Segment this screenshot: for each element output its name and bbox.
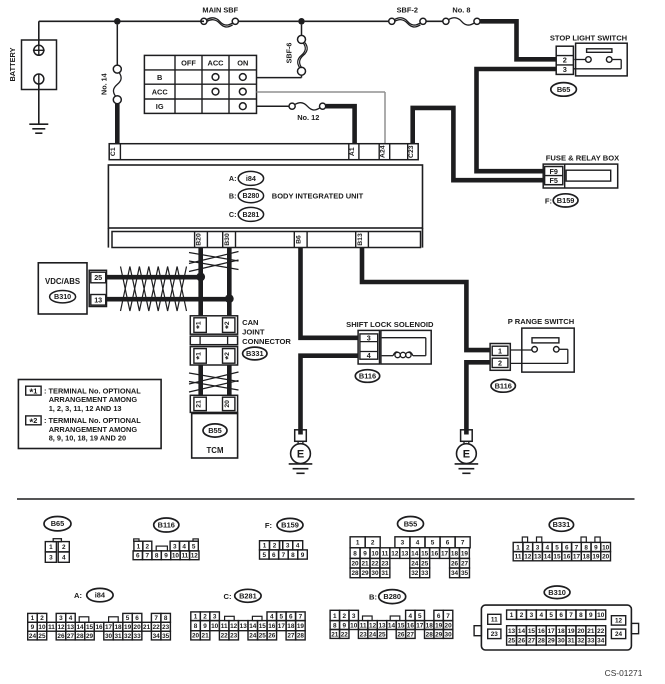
svg-text:25: 25 [508, 638, 516, 645]
TCM terminal row [190, 395, 237, 412]
svg-text:12: 12 [369, 622, 377, 629]
svg-text:11: 11 [491, 617, 498, 624]
svg-text:5: 5 [555, 544, 559, 551]
svg-text:15: 15 [421, 550, 429, 557]
svg-text:20: 20 [602, 554, 610, 561]
svg-text:14: 14 [544, 554, 552, 561]
svg-text:25: 25 [421, 561, 429, 568]
svg-text:1: 1 [49, 544, 53, 551]
svg-text:1: 1 [356, 540, 360, 547]
svg-text:24: 24 [369, 631, 377, 638]
svg-text:16: 16 [268, 623, 276, 630]
svg-text:28: 28 [426, 631, 434, 638]
wire B13 to P range switch terminal 1 (thick) [362, 248, 490, 351]
svg-text:7: 7 [282, 552, 286, 559]
svg-text:13: 13 [534, 554, 542, 561]
svg-text:20: 20 [192, 633, 200, 640]
svg-text:16: 16 [431, 550, 439, 557]
TCM unit box [192, 414, 238, 459]
svg-text:32: 32 [411, 570, 419, 577]
svg-text:: TERMINAL No. OPTIONAL: : TERMINAL No. OPTIONAL [44, 386, 141, 395]
node CAN-H junction [196, 273, 205, 282]
fuse No. 8 [443, 18, 449, 24]
svg-text:27: 27 [67, 633, 75, 640]
wire No. 8 to stop light switch terminal 2 (thick) [480, 21, 556, 59]
svg-text:19: 19 [435, 622, 443, 629]
svg-text:ACC: ACC [207, 58, 224, 67]
svg-text:TCM: TCM [207, 446, 224, 455]
twisted pair marks (horizontal) [121, 267, 187, 312]
wire battery positive to top bus [38, 45, 40, 55]
svg-text:3: 3 [49, 554, 53, 561]
connector B331 pinout [522, 537, 527, 542]
fuse MAIN SBF [201, 18, 207, 24]
svg-text:24: 24 [411, 561, 419, 568]
svg-text:B13: B13 [357, 233, 364, 246]
svg-text:: TERMINAL No. OPTIONAL: : TERMINAL No. OPTIONAL [44, 416, 141, 425]
svg-text:4: 4 [545, 544, 549, 551]
node junction B (SBF-6 tap) [298, 18, 305, 25]
svg-text:BODY INTEGRATED UNIT: BODY INTEGRATED UNIT [272, 191, 364, 200]
svg-text:A:: A: [229, 174, 237, 183]
svg-text:4: 4 [367, 351, 371, 360]
svg-text:31: 31 [567, 638, 575, 645]
connector C1 [119, 144, 121, 160]
svg-text:B116: B116 [495, 381, 512, 390]
svg-text:16: 16 [95, 624, 103, 631]
svg-text:34: 34 [451, 570, 459, 577]
svg-text:9: 9 [301, 552, 305, 559]
svg-text:12: 12 [615, 618, 623, 625]
svg-text:No. 12: No. 12 [297, 113, 319, 122]
wire P range switch terminal 2 to ground (thick) [466, 362, 490, 434]
svg-text:7: 7 [461, 540, 465, 547]
CAN joint connector middle row [190, 336, 237, 345]
wire IG row to fuse No. 12 [257, 105, 290, 107]
svg-text:6: 6 [136, 553, 140, 560]
connector C23 [407, 144, 409, 160]
svg-text:1: 1 [498, 346, 502, 355]
connector B116 pinout ref [154, 518, 179, 532]
svg-text:6: 6 [289, 614, 293, 621]
svg-text:22: 22 [153, 624, 161, 631]
svg-text:27: 27 [461, 561, 469, 568]
connector B6 [293, 232, 295, 248]
svg-text:27: 27 [407, 631, 415, 638]
svg-text:11: 11 [181, 553, 188, 560]
svg-text:B331: B331 [553, 520, 571, 529]
svg-text:2: 2 [146, 543, 150, 550]
svg-text:34: 34 [153, 633, 161, 640]
svg-text:20: 20 [352, 561, 360, 568]
svg-text:18: 18 [287, 623, 295, 630]
svg-text:5: 5 [280, 614, 284, 621]
svg-text:23: 23 [230, 633, 238, 640]
svg-text:20: 20 [445, 622, 453, 629]
svg-text:19: 19 [567, 628, 575, 635]
wire CAN joint *2 to TCM 20 (thick) [227, 365, 232, 395]
svg-text:A1: A1 [349, 147, 356, 156]
svg-text:CONNECTOR: CONNECTOR [242, 337, 291, 346]
connector B310 pinout ref [544, 586, 570, 599]
svg-text:10: 10 [371, 550, 379, 557]
svg-text:7: 7 [569, 612, 573, 619]
wire node to CAN joint connector *2 (thick) [227, 299, 232, 316]
svg-text:11: 11 [221, 623, 228, 630]
svg-text:5: 5 [126, 615, 130, 622]
svg-text:7: 7 [154, 615, 158, 622]
svg-text:26: 26 [397, 631, 405, 638]
svg-text:31: 31 [115, 633, 123, 640]
connector B65 pinout [53, 539, 61, 542]
VDC/ABS unit [38, 263, 87, 314]
solenoid coil L1 [393, 352, 398, 356]
svg-text:SHIFT LOCK SOLENOID: SHIFT LOCK SOLENOID [346, 320, 434, 329]
twisted pair marks (vertical upper) [189, 253, 239, 262]
svg-text:B65: B65 [51, 519, 65, 528]
svg-text:1: 1 [333, 613, 337, 620]
svg-text:26: 26 [268, 633, 276, 640]
svg-text:35: 35 [461, 570, 469, 577]
svg-text:5: 5 [192, 543, 196, 550]
svg-text:27: 27 [287, 633, 295, 640]
svg-text:21: 21 [195, 400, 202, 408]
body integrated unit main box [108, 165, 422, 228]
svg-text:STOP LIGHT SWITCH: STOP LIGHT SWITCH [550, 34, 627, 43]
svg-text:33: 33 [587, 638, 595, 645]
svg-text:30: 30 [105, 633, 113, 640]
svg-text:ARRANGEMENT AMONG: ARRANGEMENT AMONG [49, 425, 138, 434]
svg-text:17: 17 [441, 550, 449, 557]
svg-text:19: 19 [461, 550, 469, 557]
svg-text:4: 4 [182, 543, 186, 550]
svg-text:25: 25 [38, 633, 46, 640]
svg-text:24: 24 [29, 633, 37, 640]
svg-text:B30: B30 [224, 233, 231, 246]
svg-text:7: 7 [145, 553, 149, 560]
connector B281 pinout [191, 612, 201, 621]
svg-text:18: 18 [115, 624, 123, 631]
note box (terminal arrangement) [18, 380, 161, 449]
connector A1 [348, 144, 350, 160]
svg-text:B159: B159 [557, 196, 575, 205]
svg-text:10: 10 [602, 544, 610, 551]
svg-text:E: E [297, 449, 304, 461]
svg-text:No. 8: No. 8 [452, 6, 470, 15]
svg-text:CAN: CAN [242, 318, 258, 327]
svg-text:A:: A: [74, 591, 82, 600]
svg-text:10: 10 [597, 612, 605, 619]
svg-text:3: 3 [59, 615, 63, 622]
svg-text:23: 23 [381, 561, 389, 568]
svg-text:SBF-2: SBF-2 [397, 6, 418, 15]
svg-text:i84: i84 [246, 174, 256, 183]
svg-text:F:: F: [265, 521, 272, 530]
svg-text:1, 2, 3, 11, 12 AND 13: 1, 2, 3, 11, 12 AND 13 [49, 404, 122, 413]
connector B20 [194, 232, 196, 248]
ground E (P range switch) [461, 430, 473, 442]
svg-text:C:: C: [223, 592, 231, 601]
wire No. 12 to connector A1 (thick) [326, 106, 355, 144]
svg-text:C1: C1 [110, 147, 117, 156]
svg-text:SBF-6: SBF-6 [285, 43, 294, 64]
svg-text:4: 4 [270, 614, 274, 621]
fuse SBF-6 [301, 25, 303, 36]
svg-text:3: 3 [563, 65, 567, 74]
svg-text:14: 14 [249, 623, 257, 630]
svg-text:3: 3 [536, 544, 540, 551]
svg-text:B280: B280 [243, 193, 260, 200]
svg-text:IG: IG [156, 102, 164, 111]
fuse and relay box inner element [566, 170, 611, 181]
svg-text:25: 25 [94, 273, 102, 282]
connector B310 pinout cells [507, 610, 517, 619]
svg-text:B:: B: [229, 191, 237, 200]
svg-text:6: 6 [559, 612, 563, 619]
wire ACC row to A24 (gray) [257, 91, 386, 93]
wire battery negative to ground [38, 84, 40, 124]
svg-text:29: 29 [548, 638, 556, 645]
svg-text:B280: B280 [383, 592, 401, 601]
svg-text:MAIN SBF: MAIN SBF [202, 6, 238, 15]
svg-text:8: 8 [579, 612, 583, 619]
svg-text:12: 12 [524, 554, 532, 561]
svg-text:27: 27 [528, 638, 536, 645]
terminal 20 [223, 397, 235, 410]
svg-text:B281: B281 [239, 591, 257, 600]
svg-text:22: 22 [597, 628, 605, 635]
svg-text:14: 14 [388, 622, 396, 629]
svg-text:F:: F: [545, 196, 552, 205]
svg-text:1: 1 [516, 544, 520, 551]
svg-text:A24: A24 [379, 145, 386, 158]
svg-text:17: 17 [573, 554, 581, 561]
svg-text:18: 18 [426, 622, 434, 629]
svg-text:35: 35 [162, 633, 170, 640]
svg-text:8: 8 [333, 622, 337, 629]
svg-text:13: 13 [67, 624, 75, 631]
svg-text:24: 24 [615, 631, 623, 638]
wire solenoid terminal 4 to ground (thick) [301, 356, 359, 435]
svg-text:21: 21 [361, 561, 369, 568]
svg-text:2: 2 [40, 615, 44, 622]
svg-text:30: 30 [558, 638, 566, 645]
svg-text:14: 14 [411, 550, 419, 557]
svg-text:32: 32 [124, 633, 132, 640]
svg-text:F9: F9 [550, 167, 558, 176]
svg-text:3: 3 [352, 613, 356, 620]
svg-text:ARRANGEMENT AMONG: ARRANGEMENT AMONG [49, 395, 138, 404]
VDC/ABS terminal block [89, 270, 106, 306]
svg-text:23: 23 [162, 624, 170, 631]
svg-text:15: 15 [553, 554, 561, 561]
svg-text:21: 21 [202, 633, 210, 640]
svg-text:B159: B159 [281, 521, 299, 530]
svg-text:P RANGE SWITCH: P RANGE SWITCH [508, 317, 575, 326]
svg-text:VDC/ABS: VDC/ABS [45, 277, 80, 286]
svg-text:4: 4 [69, 615, 73, 622]
wire junction B to SBF-2 [305, 20, 389, 22]
connector B116 ref (P range switch) [491, 379, 515, 392]
connector A24 [378, 144, 380, 160]
svg-text:20: 20 [224, 400, 231, 408]
svg-text:30: 30 [445, 631, 453, 638]
svg-text:3: 3 [173, 543, 177, 550]
svg-text:21: 21 [587, 628, 595, 635]
svg-text:4: 4 [409, 613, 413, 620]
svg-text:25: 25 [378, 631, 386, 638]
wire VDC/ABS 25 to node (thick, CAN high) [107, 275, 201, 280]
svg-text:BATTERY: BATTERY [8, 47, 17, 81]
svg-text:16: 16 [407, 622, 415, 629]
svg-text:C:: C: [229, 210, 237, 219]
svg-text:13: 13 [401, 550, 409, 557]
svg-text:5: 5 [431, 540, 435, 547]
svg-text:13: 13 [378, 622, 386, 629]
ignition switch contacts [212, 74, 219, 81]
svg-text:9: 9 [363, 550, 367, 557]
connector B13 [355, 232, 357, 248]
terminal 13 [91, 295, 106, 306]
svg-text:21: 21 [143, 624, 151, 631]
svg-text:2: 2 [273, 543, 277, 550]
wire CAN joint *1 to TCM 21 (thick) [198, 365, 203, 395]
svg-text:B116: B116 [359, 372, 376, 381]
terminal 1 [492, 346, 508, 355]
svg-text:ON: ON [237, 58, 248, 67]
svg-text:17: 17 [105, 624, 113, 631]
svg-text:12: 12 [57, 624, 65, 631]
ground E (shift lock solenoid) [295, 430, 307, 442]
svg-text:6: 6 [437, 613, 441, 620]
connector B55 ref [203, 424, 227, 437]
svg-text:CS-01271: CS-01271 [605, 668, 643, 678]
svg-text:6: 6 [446, 540, 450, 547]
svg-text:12: 12 [191, 553, 199, 560]
stop light switch internal bar [587, 49, 612, 53]
svg-text:17: 17 [278, 623, 286, 630]
connector B55 pinout [350, 537, 365, 548]
svg-text:17: 17 [416, 622, 424, 629]
wire stop light switch terminal 3 to F9 (thick) [477, 69, 556, 171]
svg-text:8: 8 [584, 544, 588, 551]
svg-text:22: 22 [221, 633, 229, 640]
svg-text:14: 14 [518, 628, 526, 635]
svg-text:21: 21 [331, 631, 339, 638]
svg-text:3: 3 [367, 333, 371, 342]
svg-text:19: 19 [297, 623, 305, 630]
connector B55 pinout ref [398, 517, 424, 532]
svg-text:8: 8 [164, 615, 168, 622]
svg-text:2: 2 [498, 358, 502, 367]
svg-text:33: 33 [421, 570, 429, 577]
twisted pair marks (vertical lower) [189, 373, 239, 382]
svg-text:2: 2 [563, 56, 567, 65]
svg-text:26: 26 [451, 561, 459, 568]
svg-text:B310: B310 [54, 292, 71, 301]
connector B310 pinout shell [481, 605, 631, 650]
connector B30 [222, 232, 224, 248]
svg-text:22: 22 [371, 561, 379, 568]
svg-text:10: 10 [350, 622, 358, 629]
svg-text:1: 1 [263, 543, 267, 550]
svg-text:14: 14 [76, 624, 84, 631]
ignition switch table [144, 55, 256, 113]
svg-text:2: 2 [520, 612, 524, 619]
svg-text:26: 26 [518, 638, 526, 645]
svg-text:2: 2 [526, 544, 530, 551]
svg-text:32: 32 [577, 638, 585, 645]
svg-text:22: 22 [341, 631, 349, 638]
svg-text:1: 1 [510, 612, 514, 619]
wire fuse No. 14 to connector C1 (thick) [115, 104, 120, 144]
connector B331 pinout ref [549, 518, 573, 531]
svg-text:26: 26 [57, 633, 65, 640]
wire B6 to solenoid terminal 3 (thick) [301, 248, 359, 338]
svg-text:13: 13 [94, 295, 102, 304]
svg-text:13: 13 [508, 628, 516, 635]
svg-text:3: 3 [213, 614, 217, 621]
svg-text:4: 4 [416, 540, 420, 547]
connector B65 pinout ref [44, 517, 71, 531]
wire node to CAN joint connector *1 (thick) [198, 277, 203, 316]
connector B116 ref (shift lock solenoid) [355, 370, 379, 383]
svg-text:B: B [157, 73, 162, 82]
svg-text:31: 31 [381, 570, 389, 577]
svg-text:17: 17 [548, 628, 556, 635]
svg-text:11: 11 [48, 624, 55, 631]
terminal 2 [492, 358, 508, 367]
svg-text:B6: B6 [296, 235, 303, 244]
svg-text:13: 13 [240, 623, 248, 630]
connector B331 ref [243, 347, 267, 360]
svg-text:3: 3 [286, 543, 290, 550]
svg-text:15: 15 [397, 622, 405, 629]
svg-text:5: 5 [549, 612, 553, 619]
stop light switch contacts [586, 57, 592, 63]
solenoid body U1 [381, 330, 431, 364]
wire B30 down to node (thick) [227, 248, 232, 299]
P range switch internal bar [532, 338, 559, 343]
svg-text:15: 15 [259, 623, 267, 630]
svg-text:10: 10 [211, 623, 219, 630]
svg-text:4: 4 [62, 554, 66, 561]
svg-text:4: 4 [539, 612, 543, 619]
svg-text:24: 24 [249, 633, 257, 640]
svg-text:7: 7 [575, 544, 579, 551]
svg-text:12: 12 [230, 623, 238, 630]
svg-text:15: 15 [528, 628, 536, 635]
svg-text:B65: B65 [557, 85, 571, 94]
svg-text:28: 28 [538, 638, 546, 645]
svg-text:23: 23 [491, 631, 499, 638]
svg-text:20: 20 [577, 628, 585, 635]
svg-text:i84: i84 [95, 591, 106, 600]
svg-text:5: 5 [262, 552, 266, 559]
connector B65 ref [551, 83, 577, 97]
svg-text:8: 8 [194, 623, 198, 630]
svg-text:No. 14: No. 14 [99, 73, 108, 95]
svg-text:8: 8 [155, 553, 159, 560]
svg-text:33: 33 [134, 633, 142, 640]
body integrated unit top connector row [109, 144, 418, 160]
svg-text:1: 1 [31, 615, 35, 622]
connector i84 pinout [28, 613, 38, 622]
svg-text:B20: B20 [196, 233, 203, 246]
svg-text:OFF: OFF [181, 58, 196, 67]
svg-text:B55: B55 [404, 519, 418, 528]
svg-text:18: 18 [451, 550, 459, 557]
